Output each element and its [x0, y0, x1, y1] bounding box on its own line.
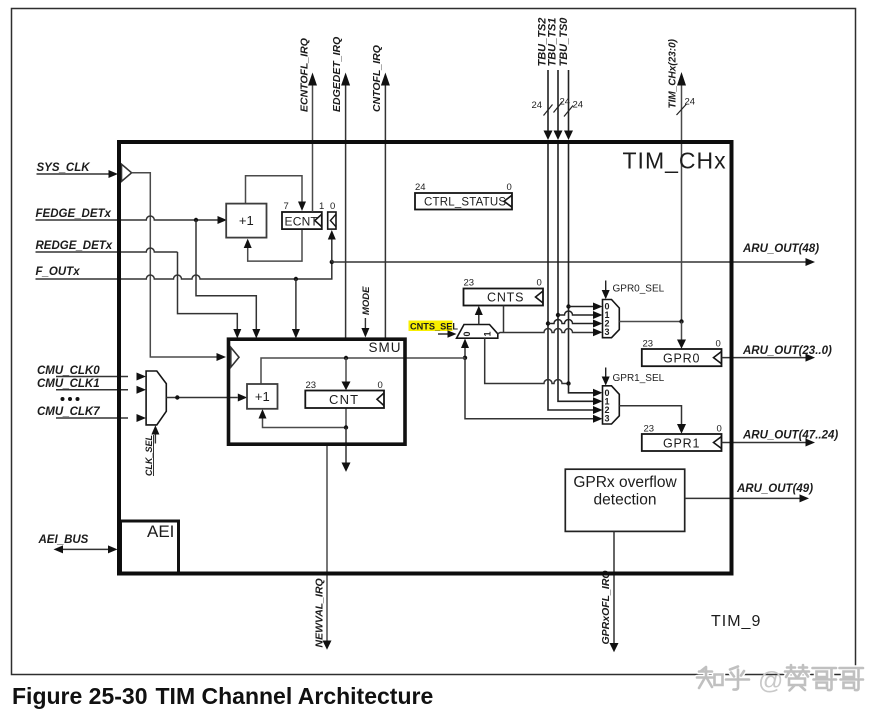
- wire CLK mux output to +1: [166, 397, 238, 399]
- svg-text:23: 23: [306, 380, 317, 391]
- svg-text:NEWVAL_IRQ: NEWVAL_IRQ: [314, 578, 326, 647]
- wire TBU_TS2 to GPR0 mux in2: [548, 320, 603, 328]
- wire TBU_TS0 vertical: [568, 144, 570, 384]
- svg-text:F_OUTx: F_OUTx: [36, 266, 81, 278]
- svg-text:24: 24: [573, 100, 584, 111]
- svg-text:CNT: CNT: [329, 392, 359, 407]
- wire TBU_TS1 to GPR0 mux in1: [558, 311, 603, 319]
- output ECNTOFL_IRQ: [299, 38, 318, 212]
- svg-text:CLK_SEL: CLK_SEL: [144, 435, 154, 476]
- buffer clock input: [122, 164, 132, 181]
- svg-text:ARU_OUT(47..24): ARU_OUT(47..24): [742, 430, 838, 442]
- svg-text:23: 23: [644, 424, 655, 435]
- block SMU: [229, 339, 406, 444]
- wire CNT value to GPR1 mux in3: [465, 358, 603, 423]
- wire into GPR0: [677, 322, 686, 349]
- input SYS_CLK: [37, 162, 119, 178]
- wire TBU_TS0 to CNTS mux in1: [485, 338, 569, 383]
- arrow into SMU buffer: [217, 353, 227, 361]
- signal CLK_SEL: [144, 425, 159, 476]
- wire TBU_TS0 to GPR1 mux in0: [569, 384, 603, 397]
- node TBU_TS2 junction: [546, 321, 550, 325]
- wire REDGE_DETx to SMU: [178, 252, 242, 339]
- svg-text:CNTS_SEL: CNTS_SEL: [410, 321, 458, 331]
- wire GPR0 mux output: [619, 321, 681, 323]
- svg-text:24: 24: [415, 182, 426, 193]
- wire ARU_OUT(49): [685, 483, 814, 502]
- output TIM_CHx(23:0): [668, 38, 696, 321]
- svg-text:MODE: MODE: [361, 286, 372, 315]
- svg-text:GPRx overflow: GPRx overflow: [573, 474, 677, 491]
- svg-text:0: 0: [330, 201, 335, 212]
- svg-text:SYS_CLK: SYS_CLK: [37, 162, 91, 174]
- input TBU_TS1: [547, 18, 571, 140]
- node CNT feedback junction: [344, 425, 348, 429]
- input AEI_BUS: [38, 534, 118, 553]
- svg-text:CMU_CLK7: CMU_CLK7: [37, 406, 100, 418]
- svg-text:SMU: SMU: [369, 340, 402, 355]
- output CNTOFL_IRQ: [371, 45, 390, 338]
- input TBU_TS2: [532, 18, 553, 140]
- input CMU_CLK7: [37, 406, 146, 422]
- mux GPR0_SEL: [603, 300, 620, 338]
- wire TBU_TS2 vertical to GPR1 mux in2: [548, 144, 603, 414]
- mux CNTS select: [457, 325, 498, 339]
- arrow into SMU +1: [238, 394, 247, 402]
- svg-text:EDGEDET_IRQ: EDGEDET_IRQ: [331, 37, 343, 112]
- svg-text:TIM_CHx(23:0): TIM_CHx(23:0): [668, 38, 679, 108]
- wire ARU_OUT(48): [332, 243, 819, 266]
- wire CNTS mux output: [475, 306, 483, 325]
- node TBU_TS1 junction: [556, 313, 560, 317]
- svg-text:ARU_OUT(48): ARU_OUT(48): [742, 243, 819, 255]
- svg-text:GPR0_SEL: GPR0_SEL: [613, 284, 665, 295]
- register edge flag bit: [328, 212, 336, 229]
- node TBU_TS0 junction lower: [566, 381, 570, 385]
- wire SYS_CLK to SMU: [132, 173, 217, 357]
- register CTRL_STATUS: [415, 182, 512, 210]
- node CLK output junction: [175, 395, 179, 399]
- signal GPR0_SEL: [602, 281, 665, 300]
- register CNT: [305, 380, 384, 408]
- arrow into CNT: [342, 358, 351, 390]
- register GPR1: [642, 424, 722, 452]
- mux CLK_SEL: [146, 371, 166, 425]
- node CNT value junction: [463, 356, 467, 360]
- block AEI: [121, 521, 179, 573]
- node edge-flag junction: [330, 260, 334, 264]
- input REDGE_DETx: [36, 240, 178, 252]
- svg-text:ARU_OUT(23..0): ARU_OUT(23..0): [742, 345, 832, 357]
- caption figure title: [12, 683, 433, 709]
- svg-text:TIM Channel Architecture: TIM Channel Architecture: [156, 683, 434, 709]
- svg-text:GPR1: GPR1: [663, 437, 700, 451]
- node FEDGE junction: [194, 218, 198, 222]
- svg-text:1: 1: [319, 201, 324, 212]
- svg-text:GPR0: GPR0: [663, 352, 700, 366]
- output NEWVAL_IRQ: [314, 445, 332, 650]
- block SMU +1: [247, 384, 278, 409]
- svg-text:GPR1_SEL: GPR1_SEL: [613, 373, 665, 384]
- svg-text:7: 7: [284, 201, 289, 212]
- svg-text:CTRL_STATUS: CTRL_STATUS: [424, 196, 506, 208]
- svg-text:0: 0: [378, 380, 383, 391]
- wire ARU_OUT(47..24): [722, 430, 839, 447]
- buffer SMU clock input: [231, 347, 239, 367]
- block GPRx overflow detection: [565, 469, 684, 531]
- node GPR0 load junction: [679, 319, 683, 323]
- svg-text:AEI_BUS: AEI_BUS: [38, 534, 89, 546]
- wire GPR1 mux output: [619, 406, 686, 434]
- wire CNT feedback to +1: [259, 408, 347, 428]
- svg-text:GPRxOFL_IRQ: GPRxOFL_IRQ: [600, 570, 612, 644]
- wire TBU_TS0 to GPR0 mux in0: [569, 303, 603, 311]
- wire +1 to ECNT loop: [246, 176, 307, 211]
- svg-text:REDGE_DETx: REDGE_DETx: [36, 240, 113, 252]
- svg-text:3: 3: [605, 327, 610, 337]
- register GPR0: [642, 339, 722, 367]
- svg-text:FEDGE_DETx: FEDGE_DETx: [36, 208, 112, 220]
- input CMU_CLK0: [37, 365, 146, 381]
- svg-text:0: 0: [716, 339, 721, 350]
- output EDGEDET_IRQ: [331, 37, 350, 339]
- signal GPR1_SEL: [602, 368, 665, 386]
- svg-text:AEI: AEI: [147, 522, 174, 541]
- mux GPR1_SEL: [603, 386, 620, 424]
- svg-text:23: 23: [643, 339, 654, 350]
- node CNT load junction: [344, 356, 348, 360]
- svg-text:TBU_TS1: TBU_TS1: [547, 18, 559, 67]
- input FEDGE_DETx: [36, 208, 228, 224]
- wire CNT value to CNTS mux in0: [461, 339, 469, 358]
- svg-text:+1: +1: [255, 389, 270, 404]
- svg-text:+1: +1: [239, 213, 254, 228]
- svg-text:Figure 25-30: Figure 25-30: [12, 683, 148, 709]
- svg-text:0: 0: [717, 424, 722, 435]
- svg-text:TBU_TS0: TBU_TS0: [558, 17, 570, 67]
- wire to edge flag bit: [328, 230, 336, 262]
- svg-text:TIM_CHx: TIM_CHx: [623, 148, 727, 174]
- svg-text:0: 0: [537, 278, 542, 289]
- input TBU_TS0: [558, 17, 583, 140]
- block +1 counter increment: [226, 204, 266, 238]
- svg-text:@: @: [758, 667, 783, 695]
- svg-text:0: 0: [507, 182, 512, 193]
- label ellipsis dots: [61, 397, 80, 401]
- wire FEDGE_DETx to SMU: [196, 220, 260, 339]
- output GPRxOFL_IRQ: [600, 531, 619, 652]
- register ECNT: [282, 201, 335, 229]
- svg-text:0: 0: [462, 331, 472, 336]
- signal MODE: [361, 286, 372, 338]
- svg-text:CMU_CLK0: CMU_CLK0: [37, 365, 100, 377]
- svg-text:detection: detection: [594, 492, 657, 509]
- svg-text:CNTS: CNTS: [487, 291, 524, 305]
- wire CNTS output to GPR0 mux in3: [498, 306, 603, 337]
- block TIM_CHx main boundary: [119, 142, 732, 574]
- wire ECNT to +1 feedback: [244, 229, 302, 261]
- svg-text:CNTOFL_IRQ: CNTOFL_IRQ: [371, 45, 383, 112]
- svg-text:ARU_OUT(49): ARU_OUT(49): [736, 483, 813, 495]
- wire ARU_OUT(23..0): [722, 345, 832, 362]
- svg-text:24: 24: [685, 97, 696, 108]
- node F_OUTx branch: [294, 277, 298, 281]
- wire CNT load path: [261, 358, 465, 384]
- svg-text:24: 24: [532, 100, 543, 111]
- wire SMU output down: [342, 428, 351, 472]
- input F_OUTx: [36, 263, 332, 279]
- wire TBU_TS1 vertical to GPR1 mux in1: [558, 144, 603, 405]
- watermark zhihu: [697, 665, 863, 695]
- register CNTS: [464, 278, 544, 306]
- label CNTS_SEL highlighted: [409, 321, 459, 338]
- svg-text:3: 3: [605, 414, 610, 424]
- node TBU_TS0 junction upper: [566, 304, 570, 308]
- svg-text:1: 1: [483, 331, 493, 336]
- svg-text:CMU_CLK1: CMU_CLK1: [37, 378, 100, 390]
- svg-text:23: 23: [464, 278, 475, 289]
- svg-text:TIM_9: TIM_9: [711, 613, 761, 630]
- svg-text:ECNT: ECNT: [285, 214, 319, 228]
- wire F_OUTx to SMU: [292, 279, 300, 339]
- svg-text:ECNTOFL_IRQ: ECNTOFL_IRQ: [299, 38, 311, 112]
- input CMU_CLK1: [37, 378, 146, 394]
